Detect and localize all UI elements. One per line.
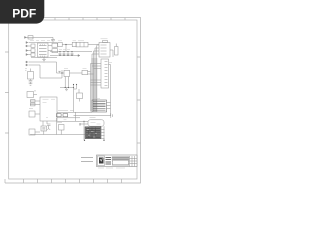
wire emitter rail <box>60 87 74 89</box>
wire J3 out right <box>109 64 111 66</box>
diode D1 <box>51 40 55 41</box>
wire bottom bus <box>30 134 88 136</box>
wire U1 to regulators <box>48 45 52 50</box>
wire net B drop <box>40 65 62 78</box>
terminator TP1 <box>111 113 113 118</box>
bus net PRG2 <box>90 64 92 112</box>
wire J2 stubs <box>92 45 99 54</box>
terminal X1 <box>25 36 27 38</box>
resistor pack RP1 <box>92 100 107 112</box>
resistor R4 <box>31 103 36 106</box>
ground GND2 <box>65 88 68 91</box>
header J3 <box>101 59 109 88</box>
resistor R6 <box>29 129 35 135</box>
terminal arrows rows <box>26 61 28 66</box>
label values upper cluster <box>30 39 112 124</box>
label D3 <box>57 122 62 124</box>
wire J2 out right <box>110 50 113 57</box>
ground GND1 <box>42 57 46 62</box>
wire Q2 input net <box>57 72 65 74</box>
diode D2 <box>77 93 83 99</box>
wire J4 legs <box>103 126 105 140</box>
terminal arrows J1 <box>26 42 28 56</box>
capacitor CX1 <box>31 49 35 52</box>
capacitor C5 <box>67 52 70 56</box>
label net names <box>81 158 93 162</box>
bus net band <box>91 58 97 112</box>
wire bottom rail of input cluster <box>31 57 57 59</box>
wire row net B <box>29 64 41 66</box>
label K1 <box>90 117 96 119</box>
fuse F1 <box>28 36 33 39</box>
PDF badge (decorative) <box>0 0 44 24</box>
regulator U3 <box>52 49 58 53</box>
title block (decorative) <box>97 155 138 168</box>
junction dot K1a <box>80 121 84 124</box>
diode D3 <box>59 125 65 131</box>
junction dots legs <box>85 139 105 141</box>
resistor network RN1 <box>57 114 68 117</box>
wire riser x75.5 <box>75 112 77 121</box>
wire Q2 output <box>70 72 83 74</box>
sheet frame (decorative, not a circuit element) <box>5 18 141 184</box>
junction node VCC <box>65 44 67 46</box>
wire J3 stubs upper <box>91 64 102 69</box>
inductor L1 <box>76 42 88 47</box>
wire riser x56.5 <box>56 118 58 135</box>
junction dots emitter <box>65 87 73 89</box>
mcu U4 <box>40 97 57 121</box>
capacitor C7 <box>58 71 61 73</box>
transistor Q2 <box>64 70 70 76</box>
varistor RV1 <box>31 44 35 47</box>
bus net PRG <box>92 46 97 112</box>
wire rail +5V <box>50 51 92 53</box>
capacitor C6 <box>71 52 74 56</box>
wire row net A <box>29 61 57 63</box>
transistor Q1 <box>115 47 119 56</box>
svg-text:PDF: PDF <box>12 7 36 21</box>
wire AC input rail <box>26 36 53 38</box>
wire U4 left stubs <box>30 101 40 105</box>
wire collector drop long <box>73 85 75 113</box>
wire RP1 stubs right <box>107 103 111 109</box>
capacitor C2 <box>72 42 76 46</box>
crystal Y1 <box>41 126 47 131</box>
wire right drop net <box>110 65 112 116</box>
capacitor C1 <box>58 42 62 46</box>
wire net row 115.6 <box>74 115 111 117</box>
capacitor C9 <box>47 124 51 130</box>
junction dot x62 <box>61 72 63 74</box>
wire J1 stubs <box>28 46 31 55</box>
wire x62 riser <box>61 70 63 78</box>
connector J4 <box>85 127 101 139</box>
wire R7 to bus <box>88 72 94 75</box>
regulator U2 <box>52 43 58 47</box>
wire Q2 legs <box>65 77 68 88</box>
wire J4 stubs right <box>101 130 105 139</box>
wire rail drop <box>52 37 54 42</box>
label R1 <box>25 69 27 71</box>
wire net row A drop <box>56 62 58 73</box>
relay K1 <box>88 120 104 126</box>
wire vcc drop <box>65 45 67 52</box>
resistor R5 <box>29 111 35 117</box>
wire top rail of input cluster <box>29 42 58 44</box>
wire K1 stubs left <box>80 123 88 125</box>
capacitor C4 <box>63 52 66 56</box>
wire L1 to J2 <box>88 44 99 46</box>
wire riser x84 <box>80 121 84 140</box>
resistor R2 <box>27 92 34 98</box>
wire C1 node <box>62 44 72 46</box>
resistor R1 <box>28 72 34 80</box>
capacitor CX2 <box>31 53 35 56</box>
wire net row 112 <box>57 111 92 113</box>
wire Y1 legs <box>43 121 47 135</box>
connector J2 <box>99 43 110 58</box>
wire stub pair <box>74 85 80 94</box>
label R5 <box>29 108 33 110</box>
junction dots rail <box>60 52 72 56</box>
label RN <box>58 110 74 112</box>
resistor R3 <box>31 100 36 103</box>
capacitor C3 <box>59 52 62 56</box>
wire J3 stubs lower <box>91 80 102 85</box>
ground GND3 <box>29 84 33 85</box>
terminal arrow rail end <box>78 55 80 57</box>
resistor R7 <box>82 70 88 74</box>
wire net row 121.3 <box>57 120 88 122</box>
bridge rectifier U1 <box>38 43 49 57</box>
wire rail GNDA <box>50 55 78 57</box>
junction dot collector <box>74 84 77 86</box>
capacitor C8 <box>29 81 33 84</box>
wire net row 117.8 <box>57 117 80 119</box>
